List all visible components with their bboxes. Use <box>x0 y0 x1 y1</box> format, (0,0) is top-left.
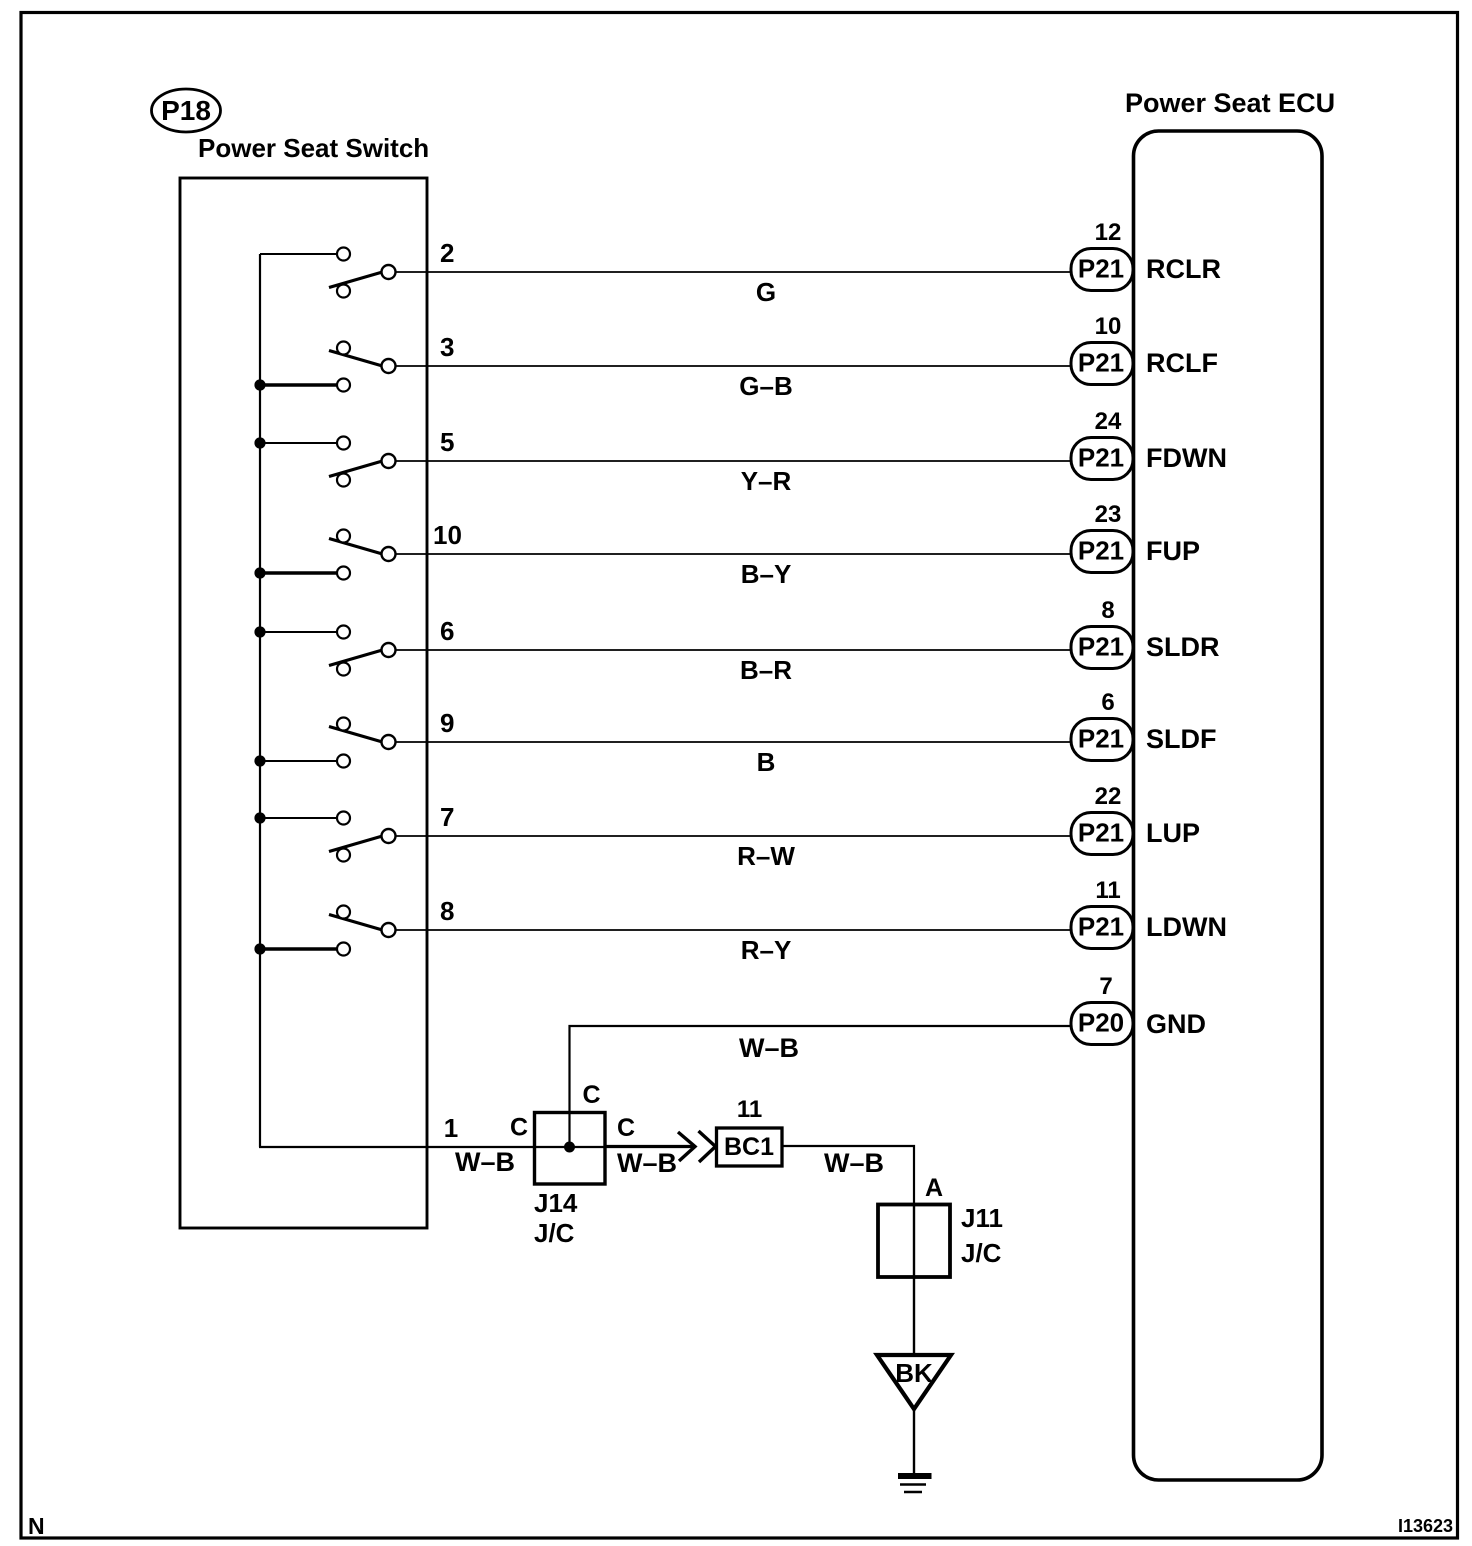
connector P21 pin 11 oval <box>1071 907 1133 949</box>
svg-text:RCLR: RCLR <box>1146 254 1221 284</box>
svg-text:B–Y: B–Y <box>741 559 792 589</box>
svg-text:P20: P20 <box>1078 1008 1124 1038</box>
wire pin 6 to SLDR <box>396 649 1072 651</box>
svg-text:P21: P21 <box>1078 632 1124 662</box>
svg-text:R–Y: R–Y <box>741 935 792 965</box>
connector P21 pin 10 oval <box>1071 343 1133 385</box>
svg-text:7: 7 <box>1099 973 1112 1000</box>
wire pin 1 (W-B) from switch to J14 <box>259 1146 535 1148</box>
svg-text:I13623: I13623 <box>1398 1516 1453 1536</box>
svg-text:6: 6 <box>1101 689 1114 716</box>
svg-text:B–R: B–R <box>740 655 792 685</box>
connector P21 pin 6 oval <box>1071 719 1133 761</box>
svg-text:GND: GND <box>1146 1009 1206 1039</box>
wire triangle to ground <box>913 1409 915 1474</box>
wire pin 5 to FDWN <box>396 460 1072 462</box>
svg-text:8: 8 <box>1101 597 1114 624</box>
wire inside J14 <box>535 1146 606 1148</box>
svg-text:8: 8 <box>440 896 454 926</box>
svg-text:G–B: G–B <box>739 371 792 401</box>
svg-text:J11: J11 <box>961 1203 1003 1233</box>
wire inside J11 down to ground triangle <box>913 1205 915 1355</box>
svg-text:BK: BK <box>895 1358 933 1388</box>
wire BC1 to J11 (W-B) <box>782 1146 914 1205</box>
svg-text:6: 6 <box>440 616 454 646</box>
svg-text:W–B: W–B <box>455 1147 515 1177</box>
wire pin 9 to SLDF <box>396 741 1072 743</box>
wire pin 2 to RCLR <box>396 271 1072 273</box>
switch SW8 (pin 8) <box>254 906 395 956</box>
svg-text:3: 3 <box>440 332 454 362</box>
svg-text:FDWN: FDWN <box>1146 443 1227 473</box>
wire pin 7 to LUP <box>396 835 1072 837</box>
svg-text:SLDF: SLDF <box>1146 724 1217 754</box>
svg-text:W–B: W–B <box>617 1148 677 1178</box>
wire pin 10 to FUP <box>396 553 1072 555</box>
svg-text:2: 2 <box>440 238 454 268</box>
svg-text:P21: P21 <box>1078 254 1124 284</box>
svg-text:12: 12 <box>1095 219 1122 246</box>
svg-text:A: A <box>925 1174 943 1202</box>
power seat switch box P18 <box>180 178 427 1228</box>
switch SW7 (pin 7) <box>254 812 395 862</box>
svg-text:C: C <box>617 1114 635 1142</box>
svg-text:Power Seat Switch: Power Seat Switch <box>198 133 429 163</box>
svg-text:7: 7 <box>440 802 454 832</box>
svg-text:P21: P21 <box>1078 912 1124 942</box>
switch SW3 (pin 5) <box>254 437 395 487</box>
svg-text:10: 10 <box>1095 313 1122 340</box>
svg-text:LUP: LUP <box>1146 818 1200 848</box>
svg-text:N: N <box>28 1513 45 1539</box>
svg-text:P21: P21 <box>1078 536 1124 566</box>
svg-text:LDWN: LDWN <box>1146 912 1227 942</box>
bus wire (common) vertical <box>259 254 261 1147</box>
svg-text:1: 1 <box>444 1113 458 1143</box>
body connector BC1 box <box>717 1128 783 1166</box>
connector P21 pin 22 oval <box>1071 813 1133 855</box>
switch SW4 (pin 10) <box>254 530 395 580</box>
svg-text:C: C <box>510 1114 528 1142</box>
switch SW5 (pin 6) <box>254 626 395 676</box>
svg-text:J14: J14 <box>534 1188 578 1218</box>
junction connector J14 box <box>535 1113 606 1185</box>
svg-text:P21: P21 <box>1078 818 1124 848</box>
wire J14 to BC1 (W-B) <box>605 1145 694 1148</box>
switch SW6 (pin 9) <box>254 718 395 768</box>
svg-text:J/C: J/C <box>961 1238 1002 1268</box>
svg-text:22: 22 <box>1095 783 1122 810</box>
svg-text:P18: P18 <box>161 95 211 126</box>
svg-text:W–B: W–B <box>824 1148 884 1178</box>
svg-text:24: 24 <box>1095 408 1122 435</box>
wire pin 8 to LDWN <box>396 929 1072 931</box>
ground symbol <box>898 1476 932 1492</box>
splice arrow chevron 1 <box>678 1132 695 1161</box>
connector P20 pin 7 oval <box>1071 1003 1133 1045</box>
junction connector J11 box <box>878 1205 950 1278</box>
connector P21 pin 8 oval <box>1071 627 1133 669</box>
wire pin 3 to RCLF <box>396 365 1072 367</box>
svg-text:RCLF: RCLF <box>1146 348 1218 378</box>
svg-text:9: 9 <box>440 708 454 738</box>
svg-text:P21: P21 <box>1078 348 1124 378</box>
splice arrow chevron 2 <box>699 1131 716 1162</box>
svg-text:FUP: FUP <box>1146 536 1200 566</box>
svg-text:B: B <box>757 747 776 777</box>
svg-text:J/C: J/C <box>534 1218 575 1248</box>
junction node dot J14 <box>564 1142 575 1153</box>
svg-text:Y–R: Y–R <box>741 466 792 496</box>
svg-text:G: G <box>756 277 776 307</box>
switch SW1 (pin 2) <box>260 248 396 298</box>
svg-text:23: 23 <box>1095 501 1122 528</box>
connector P21 pin 12 oval <box>1071 249 1133 291</box>
svg-text:Power Seat ECU: Power Seat ECU <box>1125 88 1335 118</box>
svg-text:P21: P21 <box>1078 443 1124 473</box>
svg-text:5: 5 <box>440 427 454 457</box>
connector code P18 oval <box>152 89 221 132</box>
svg-text:W–B: W–B <box>739 1033 799 1063</box>
connector P21 pin 23 oval <box>1071 531 1133 573</box>
svg-text:11: 11 <box>737 1096 762 1123</box>
svg-text:BC1: BC1 <box>724 1133 774 1161</box>
switch SW2 (pin 3) <box>254 342 395 392</box>
svg-text:C: C <box>582 1081 600 1109</box>
svg-text:SLDR: SLDR <box>1146 632 1220 662</box>
svg-text:R–W: R–W <box>737 841 795 871</box>
connector P21 pin 24 oval <box>1071 438 1133 480</box>
ground code triangle BK <box>877 1355 951 1409</box>
wire GND (W-B) from J14 up to P20 <box>570 1026 1072 1147</box>
Power Seat ECU box <box>1134 131 1323 1480</box>
svg-text:10: 10 <box>433 520 462 550</box>
svg-text:11: 11 <box>1095 877 1120 904</box>
svg-text:P21: P21 <box>1078 724 1124 754</box>
